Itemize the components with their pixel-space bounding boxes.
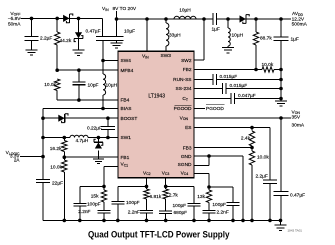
svg-text:10µH: 10µH [106,82,118,88]
node FB3 divider junction [250,146,254,150]
resistor 2.4k (ES to FB3) [251,128,253,131]
node bottom rail x=233 [231,219,235,223]
svg-text:–5.8V: –5.8V [8,16,21,22]
wire ES from IC [194,127,270,129]
node bottom rail x=64.3 [63,219,67,223]
svg-text:0.47µF: 0.47µF [85,28,100,34]
capacitor 0.015uF (SS-234 soft start) [222,83,224,94]
node bottom rail x=79.8 [78,219,82,223]
wire GND pin to ground drop [194,155,243,157]
ground (below 2.2uF) [26,49,38,51]
svg-text:BIAS: BIAS [121,106,132,112]
wire VC1 pin to comp network [104,166,118,168]
svg-text:0.47µF: 0.47µF [290,193,305,199]
svg-text:BOOST: BOOST [121,116,138,122]
node bottom rail x=117.8 [116,219,120,223]
node VC2 comp top [145,185,149,189]
diode D2 schottky (vertical, to ground) [78,18,80,32]
capacitor 0.015uF (RUN-SS soft start) [212,74,214,85]
inductor 10uH (inverter) [103,74,106,95]
node bottom rail right end [279,219,283,223]
ground (right bus, below CT node) [275,100,287,102]
svg-text:SS-234: SS-234 [176,86,192,92]
wire VC2 parallel branch [118,185,147,187]
capacitor 680pF (VC3 comp) [165,199,167,211]
wire FB4 y=100.1 [57,99,118,101]
svg-text:10µF: 10µF [124,28,135,34]
node FB1 divider junction [63,155,67,159]
node 16.2k top [63,136,67,140]
node 88.7k top [254,17,258,21]
node FB2 gnd bus [279,68,283,72]
node bottom rail x=165.7 [164,219,168,223]
resistor 10.0k (horizontal, FB2 to gnd bus) [262,67,274,72]
svg-text:88.7k: 88.7k [260,35,272,41]
svg-text:500mA: 500mA [292,22,308,28]
node VOFF-C1 junction [30,17,34,21]
capacitor 100pF (VC1 parallel) [79,186,81,203]
node bottom rail x=243 [241,219,245,223]
svg-text:2.2nF: 2.2nF [128,209,140,215]
svg-text:LT1943: LT1943 [148,93,165,99]
node VON / 0.47uF [279,116,283,120]
svg-text:FB1: FB1 [121,155,130,161]
node 33uH top [164,17,168,21]
svg-text:100pF: 100pF [173,203,187,209]
svg-text:50mA: 50mA [8,22,21,28]
svg-text:30mA: 30mA [292,122,305,128]
svg-text:2.4k: 2.4k [241,136,251,142]
svg-text:10.0k: 10.0k [257,155,269,161]
node 44.2k / 10.0k junction (MFB4) [55,68,59,72]
wire FB2 from IC to divider [194,69,262,71]
svg-text:44.2k: 44.2k [60,38,72,44]
node AVDD output [279,17,283,21]
node 10uH bottom on BIAS wire [101,107,105,111]
svg-text:0.047µF: 0.047µF [238,93,256,99]
node VC3 comp top [164,185,168,189]
svg-text:1943 TA01: 1943 TA01 [288,229,303,233]
svg-text:PGOOD: PGOOD [174,106,192,112]
svg-text:33µH: 33µH [169,32,181,38]
svg-text:SGND: SGND [178,162,192,168]
wire SGND pin tie [208,156,210,166]
wire FB1 y=157.2 [64,156,118,158]
node VOFF rail / 44.2k / D1 anode [55,17,59,21]
resistor 6.81k (VC2 comp) [144,189,149,199]
node bottom rail x=104 [102,219,106,223]
node bottom rail x=146.5 [145,219,149,223]
wire AVDD cap to ground bus x=281 [280,41,282,101]
svg-text:SW4: SW4 [121,58,132,64]
resistor 2.7k (VC3 comp) [163,189,168,199]
wire VLOGIC output [20,156,43,158]
svg-text:FB3: FB3 [183,146,192,152]
svg-text:SW1: SW1 [121,135,132,141]
node charge pump mid node [226,17,230,21]
svg-text:PGOOD: PGOOD [206,106,224,112]
wire VON from IC to label [194,117,291,119]
svg-text:SW2: SW2 [181,58,192,64]
svg-text:RUN-SS: RUN-SS [173,77,191,83]
svg-text:35V: 35V [292,115,301,121]
capacitor 0.22uF (boost cap) [107,118,109,126]
resistor 88.7k [255,19,257,32]
svg-text:SW3: SW3 [161,53,172,59]
ground (below right 10uH) [222,47,234,49]
wire VC2 pin down [146,178,148,189]
capacitor 10pF (feedforward) [78,70,80,82]
svg-text:10.0k: 10.0k [50,165,62,171]
wire BOOST y=118.2 [43,117,118,119]
resistor 10.0k (FB1 divider bottom) [63,157,65,160]
wire left bus x=43 (VLOGIC) [42,109,44,180]
svg-text:12.2V: 12.2V [292,16,305,22]
inductor 10uH (on top rail) [174,16,196,19]
node VIN rail / 10uF [115,17,119,21]
svg-text:4.7µH: 4.7µH [76,138,89,144]
svg-text:2.2nF: 2.2nF [78,209,90,215]
capacitor 100pF (VC3 parallel) [188,203,201,205]
svg-text:GND: GND [181,154,192,160]
wire SS-234 from IC [194,88,223,90]
wire VC3 pin down [165,178,167,189]
wire SW4 to IC [103,60,118,62]
resistor 13k (VC4 comp) [206,190,211,203]
node GND/SGND tie [207,154,211,158]
capacitor 0.47uF (VON output cap) [280,118,282,192]
svg-text:1µF: 1µF [212,27,220,33]
svg-text:680pF: 680pF [174,210,188,216]
capacitor 10uF (VIN bypass) [116,19,118,37]
svg-text:Quad Output TFT-LCD Power Supp: Quad Output TFT-LCD Power Supply [88,229,230,239]
node 10pF top [77,68,81,72]
node bottom rail x=194 [192,219,196,223]
resistor 10.0k (FB3 to gnd) [251,148,253,152]
node SW1 wire at bus [41,136,45,140]
ground (bottom right, main) [280,220,282,225]
wire SW1 y=137.5 [43,137,70,139]
wire GND net down to bottom rail [242,156,244,220]
diode D3 schottky (to AVDD) [240,15,246,22]
node 10pF bottom [77,98,81,102]
wire MFB4 y=70.2 [57,69,118,71]
node bottom rail x=270 [268,219,272,223]
capacitor 100pF (VC4 parallel) [227,202,240,204]
wire VIN label stem [116,11,118,19]
capacitor 1uF (charge-pump flying cap, series in rail) [212,13,214,25]
svg-text:10pF: 10pF [88,82,99,88]
node VC4 comp top [207,185,211,189]
node SW2 drop from rail [202,17,206,21]
svg-text:FB4: FB4 [121,98,130,104]
svg-text:13k: 13k [197,194,205,200]
svg-text:10.0k: 10.0k [44,82,56,88]
svg-text:10µH: 10µH [232,32,244,38]
wire RUN-SS from IC [194,79,213,81]
svg-text:10µH: 10µH [179,7,191,13]
capacitor 22uF (VLOGIC output cap) [36,179,50,181]
svg-text:ES: ES [185,125,191,131]
wire from 0.47uF down to SW4 node [102,40,104,74]
capacitor 0.47uF (flying cap of inverter) [102,18,104,36]
wire BIAS y=108.5 [43,108,118,110]
capacitor 2.2nF (VC2 comp) [146,199,148,211]
node FB2 / 88.7k bottom [254,68,258,72]
resistor 10.0k (MFB4-FB4 divider) [55,79,60,91]
inductor 4.7uH (buck) [70,135,88,137]
inductor 33uH (to SW3) [165,19,167,23]
wire VC4 pin to comp network [194,173,209,175]
svg-text:100pF: 100pF [212,202,226,208]
diode D5 schottky (SW1 catch diode) [97,138,99,142]
node VC1 comp top [102,185,106,189]
svg-text:0.015µF: 0.015µF [220,74,238,80]
wire VC4 parallel branch [209,186,233,188]
node SS-234 gnd bus [279,87,283,91]
wire PGOOD from IC [194,108,205,110]
node ES / 2.4k top [250,126,254,130]
svg-text:1µF: 1µF [291,37,299,43]
inductor 10uH (charge pump, to ground) [227,19,229,28]
node bottom rail x=252 [250,219,254,223]
wire VC3 parallel branch [166,185,194,187]
wire CT from IC [194,98,231,100]
svg-text:FB2: FB2 [183,67,192,73]
wire bottom ground rail [43,219,281,221]
capacitor 2.2nF (VC4 comp) [208,203,210,211]
node BOOST wire at bus [41,116,45,120]
svg-text:MFB4: MFB4 [121,68,134,74]
node CT gnd bus [279,97,283,101]
wire VOFF rail y=18.4 [21,17,103,19]
node 0.22uF bottom [106,136,110,140]
capacitor 2.2uF (VOFF output cap) [31,18,33,36]
node VLOGIC at bus [41,155,45,159]
svg-text:100pF: 100pF [126,200,140,206]
svg-text:100pF: 100pF [87,202,101,208]
wire VIN rail to IC VIN pin [146,19,148,51]
svg-text:2.2µF: 2.2µF [256,173,268,179]
ground (below 10uF) [111,42,123,44]
diode D4 schottky (BOOST) [58,115,64,122]
svg-text:2A: 2A [14,158,21,163]
capacitor 2.2uF (ES bypass) [269,128,271,181]
capacitor 0.047uF (CT timing cap) [230,93,232,104]
svg-text:2.2nF: 2.2nF [217,209,229,215]
node D1 cathode / D2 / flying cap wire [77,17,81,21]
svg-text:2.2µF: 2.2µF [40,36,52,42]
node RUN-SS gnd bus [279,78,283,82]
capacitor 2.2nF (VC1 comp) [103,202,105,211]
resistor 16.2k (FB1 divider top) [63,138,65,141]
wire VC1 comp branch [80,185,104,187]
ground (below catch diode) [93,158,104,160]
capacitor 100pF (VC2 parallel) [111,201,124,203]
resistor 15k (VC1 comp) [101,190,106,202]
resistor 44.2k [56,18,58,32]
wire VIN top rail y=19 [117,18,214,20]
svg-text:0.22µF: 0.22µF [87,125,102,131]
svg-text:6.81k: 6.81k [150,194,162,200]
node VIN pin drop [145,17,149,21]
svg-text:10.0k: 10.0k [262,62,274,68]
ground (below D2) [73,49,85,51]
node bottom rail x=209 [207,219,211,223]
svg-text:22µF: 22µF [52,180,63,186]
diode D1 schottky (horizontal, on VOFF rail) [63,15,69,22]
capacitor 1uF (AVDD output cap) [280,19,282,37]
wire SW2 to top rail [203,19,205,60]
svg-text:0.015µF: 0.015µF [230,83,248,89]
op-amp U1 LT1943 (quad switching regulator IC) [118,51,194,177]
node 0.22uF top on BOOST wire [106,116,110,120]
node SW4 junction [101,59,105,63]
svg-text:2.7k: 2.7k [169,192,179,198]
wire FB3 from IC [194,147,252,149]
svg-text:16.2k: 16.2k [50,146,62,152]
svg-text:15k: 15k [91,193,99,199]
node catch diode top [97,136,101,140]
